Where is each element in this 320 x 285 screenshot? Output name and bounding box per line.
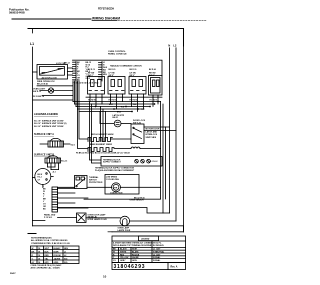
bundle descend wires: [90, 102, 106, 164]
switch drop wires: [90, 97, 158, 111]
svg-text:ROUGE: ROUGE: [54, 255, 62, 257]
svg-text:SIG: SIG: [64, 258, 68, 260]
wire N corner: [58, 208, 170, 214]
legend list title: [34, 112, 58, 116]
rail wire labels: [109, 104, 144, 114]
svg-text:WHITE: WHITE: [120, 252, 127, 254]
terminal block caption: [95, 167, 135, 172]
svg-text:PROTECTEUR: PROTECTEUR: [89, 182, 103, 184]
svg-text:59457: 59457: [10, 272, 16, 275]
surface unit switch labels: [88, 72, 156, 76]
svg-text:SUPPLY CONNECT: SUPPLY CONNECT: [103, 162, 121, 164]
oven door switch labels: [88, 213, 108, 221]
svg-text:H1 H2 N: H1 H2 N: [88, 99, 96, 101]
P1 pin labels: [77, 62, 81, 82]
switch wire labels row: [88, 68, 156, 71]
node L1: [30, 42, 34, 46]
svg-text:GRIS: GRIS: [132, 260, 137, 262]
oven sensor caption: [130, 199, 145, 201]
svg-text:H1 H2 N: H1 H2 N: [109, 99, 117, 101]
svg-text:SU-2,3: SU-2,3: [61, 160, 68, 162]
wire row w15: [42, 95, 73, 97]
wire color table text: [32, 247, 69, 264]
wire bottom rail 1: [33, 226, 184, 232]
legend list lines: [34, 120, 67, 128]
svg-text:BK R-10: BK R-10: [88, 69, 95, 71]
wire door sw row: [33, 218, 77, 221]
svg-text:N: N: [168, 43, 170, 47]
wire lower run 1: [84, 198, 161, 200]
svg-text:L2: L2: [173, 43, 177, 47]
oven lamp caption: [118, 227, 131, 232]
svg-text:BK-22 W-41: BK-22 W-41: [37, 83, 49, 86]
svg-text:SIGNAL: SIGNAL: [153, 259, 161, 262]
svg-text:BLACK: BLACK: [120, 248, 127, 251]
svg-text:BLANC: BLANC: [54, 247, 62, 250]
surface unit A element: [40, 138, 70, 147]
svg-text:W: W: [32, 248, 34, 250]
wire bottom rail 2: [108, 231, 112, 233]
wire broil left drop: [78, 109, 89, 149]
svg-text:COOLING FAN: COOLING FAN: [106, 178, 119, 181]
oven lamp: [120, 216, 130, 226]
wire door box to bus l2: [144, 130, 176, 132]
bake element label: [90, 143, 112, 146]
svg-text:BK R-40: BK R-40: [149, 68, 156, 71]
choke coil: [131, 147, 140, 149]
svg-text:WHT: WHT: [45, 248, 50, 250]
svg-text:P-12 W-3: P-12 W-3: [44, 217, 52, 219]
wires lock box to control: [68, 68, 73, 75]
wire bundle rail 1: [73, 101, 161, 103]
timer motor circle: [35, 169, 54, 188]
svg-text:5995524458: 5995524458: [9, 11, 25, 15]
svg-text:P4 BK-60 W-61 R-62 BU-63 GY-64: P4 BK-60 W-61 R-62 BU-63 GY-64 OR-65 BR-…: [76, 152, 131, 155]
comb drop wires: [73, 81, 79, 112]
svg-text:W-15 BK-16: W-15 BK-16: [33, 96, 45, 98]
svg-text:BK R-30: BK R-30: [130, 69, 137, 71]
svg-text:OVEN SENSOR: OVEN SENSOR: [130, 199, 145, 201]
connector strip J1: [52, 187, 58, 212]
wire bundle rail 2: [75, 103, 155, 105]
left bottom tick: [28, 233, 36, 235]
svg-text:L1: L1: [30, 42, 34, 46]
svg-text:SWITCHES: SWITCHES: [146, 137, 157, 139]
surface unit A title: [34, 133, 54, 136]
svg-text:NOTES/REMARQUES:: NOTES/REMARQUES:: [31, 236, 52, 239]
wire mid row: [58, 186, 112, 188]
wires connector to right: [58, 188, 89, 208]
connector pin labels: [43, 188, 47, 210]
svg-text:LEGEND: LEGEND: [141, 239, 150, 241]
convection motor label: [110, 187, 123, 194]
page number: [103, 275, 107, 279]
svg-text:GRY: GRY: [45, 262, 50, 264]
wiring diagram title: [92, 16, 120, 20]
svg-text:ALL WIRING 18 GA. COPPER UNLES: ALL WIRING 18 GA. COPPER UNLESS: [31, 239, 68, 242]
door switch label: [133, 120, 146, 124]
svg-text:N NEUTRAL: N NEUTRAL: [153, 251, 165, 254]
wire label column: [86, 62, 92, 80]
part number box: [112, 263, 186, 270]
broil element: [88, 138, 112, 142]
oven control connector P2 pin comb: [99, 62, 103, 82]
svg-text:10: 10: [103, 275, 107, 279]
svg-text:TABLEAU COMMANDE CUISSON: TABLEAU COMMANDE CUISSON: [110, 65, 142, 68]
svg-text:BLANC: BLANC: [132, 251, 139, 254]
svg-text:318046293: 318046293: [114, 264, 146, 270]
connector row labels: [73, 81, 99, 84]
svg-text:JAUNE: JAUNE: [132, 256, 139, 259]
svg-text:ROUGE: ROUGE: [132, 254, 140, 256]
svg-text:INTERLOCK: INTERLOCK: [146, 134, 158, 136]
wire top lamp row: [37, 85, 73, 87]
wire switch bottom rail: [86, 96, 162, 98]
svg-text:BK W: BK W: [38, 174, 43, 176]
wire L2 vertical: [175, 48, 177, 221]
svg-text:WIRING DIAGRAM: WIRING DIAGRAM: [92, 16, 120, 20]
svg-text:SW R-13: SW R-13: [33, 91, 42, 93]
P2 pin labels: [103, 62, 108, 76]
caption row P4: [76, 152, 131, 155]
svg-text:LEGEND/LEGENDE: LEGEND/LEGENDE: [34, 112, 58, 116]
wire through lamp switch: [40, 90, 73, 92]
thermal protector label: [89, 176, 103, 184]
label wires top near EOC: [56, 63, 71, 66]
panel french label: [110, 65, 142, 68]
enclosure text: [106, 177, 119, 181]
wire motor to connector: [42, 186, 44, 187]
svg-text:SU-2 6" SURFACE UNIT 1250W (2: SU-2 6" SURFACE UNIT 1250W (2): [34, 122, 67, 125]
svg-text:SW V-26: SW V-26: [133, 122, 142, 124]
wire L1 to motor: [33, 177, 35, 179]
wire lamp right: [86, 218, 176, 221]
svg-text:YELLOW: YELLOW: [120, 257, 128, 259]
svg-text:AVIS CONTRAIRE CAL. 18 AWG: AVIS CONTRAIRE CAL. 18 AWG: [31, 267, 61, 270]
switch terminal labels: [88, 99, 158, 101]
header rule under title: [92, 19, 117, 21]
wire row bk16: [33, 99, 73, 101]
legend table text: [113, 239, 164, 247]
wire gauge note rows: [31, 264, 63, 269]
svg-text:JAUNE: JAUNE: [54, 257, 61, 260]
wire to latch motor: [100, 112, 114, 124]
svg-text:SU-1 8" SURFACE UNIT 2100W: SU-1 8" SURFACE UNIT 2100W: [34, 120, 64, 123]
lock switch contacts: [42, 69, 62, 73]
svg-text:NOIR: NOIR: [54, 251, 60, 253]
svg-text:R 4-2: R 4-2: [38, 176, 42, 179]
svg-text:L1 N L2: L1 N L2: [151, 161, 158, 163]
surface unit switch S4: [149, 76, 163, 98]
svg-text:CONVECTION: CONVECTION: [110, 192, 123, 194]
svg-text:W: W: [113, 252, 115, 254]
broil element label: [91, 133, 114, 136]
thermal protector box: [75, 176, 88, 189]
svg-text:BK R-20: BK R-20: [109, 69, 116, 71]
wire lock box to L1: [33, 71, 38, 73]
svg-text:SIGNAL: SIGNAL: [153, 256, 161, 259]
oven control panel console labels: [108, 51, 127, 56]
surface unit B title: [34, 154, 54, 157]
timer motor text: [38, 174, 43, 182]
svg-text:BK-52 W-50: BK-52 W-50: [134, 197, 145, 199]
door lock switch assembly outer box: [37, 65, 68, 80]
svg-text:FEF375BCDH: FEF375BCDH: [98, 7, 114, 10]
door latch switch box: [131, 124, 144, 144]
svg-text:GRIS: GRIS: [54, 262, 60, 264]
wire bundle rail 4: [78, 108, 145, 110]
latch motor label: [113, 114, 125, 119]
svg-text:NOIR: NOIR: [132, 249, 137, 251]
svg-text:H1 H2 N: H1 H2 N: [130, 99, 138, 101]
svg-text:BK-31: BK-31: [113, 117, 120, 119]
svg-text:Rev. A: Rev. A: [171, 266, 178, 269]
svg-text:BAKE ELEMENT 2585W: BAKE ELEMENT 2585W: [90, 143, 112, 146]
interlock caption: [146, 129, 161, 139]
header rule left segment: [12, 18, 91, 20]
wire lower label 1: [134, 197, 145, 199]
model number text: [98, 7, 114, 10]
svg-text:SURFACE UNIT A: SURFACE UNIT A: [34, 133, 54, 136]
svg-text:WITH A RANGE TOP TERMINAL DE B: WITH A RANGE TOP TERMINAL DE BORNES DU D…: [113, 244, 164, 247]
publication number text: [9, 7, 30, 14]
wire right border vertical: [183, 46, 185, 232]
svg-text:SIG: SIG: [64, 262, 68, 264]
wire bundle rail 5: [79, 111, 132, 113]
top supply rule: [28, 29, 184, 47]
terminal block box: [101, 157, 162, 167]
control panel boundary: [73, 60, 163, 75]
svg-text:OVEN CONTROL: OVEN CONTROL: [108, 51, 126, 53]
wire bake to bus: [114, 148, 161, 150]
wire bundle rail 3: [76, 106, 150, 108]
switch lamp SW1: [48, 88, 53, 93]
connector strip bottom labels: [44, 214, 56, 219]
convection motor: [112, 183, 121, 192]
wire L1 vertical: [32, 47, 34, 226]
oven door switch box: [77, 213, 87, 223]
footer publication code: [10, 272, 16, 275]
svg-text:MTR: MTR: [113, 187, 118, 189]
svg-text:H1 H2 N: H1 H2 N: [150, 99, 158, 101]
surface unit B label: [61, 160, 68, 162]
svg-text:L1 120V: L1 120V: [153, 249, 161, 251]
svg-text:SU-3 6" SURFACE UNIT 1250W: SU-3 6" SURFACE UNIT 1250W: [34, 125, 64, 128]
notes text: [31, 236, 70, 244]
svg-text:NEU: NEU: [64, 248, 69, 250]
svg-text:INTER LAMPE FOUR: INTER LAMPE FOUR: [88, 218, 108, 221]
junction dots: [95, 101, 159, 113]
motor MDL door latch: [114, 120, 121, 127]
node N: [168, 43, 170, 47]
legend title box: [139, 236, 159, 241]
wire right risers: [161, 102, 166, 214]
convection fan enclosure: [105, 175, 139, 195]
node L2: [173, 43, 177, 47]
lock switch arm: [41, 68, 64, 74]
wire N vertical: [169, 48, 171, 213]
wire color table: [31, 246, 80, 264]
svg-text:RED: RED: [120, 254, 125, 256]
svg-text:RED: RED: [45, 255, 50, 257]
wire broil to door box: [110, 138, 131, 140]
timer motor label: [53, 171, 57, 174]
header rule dashed right segment: [118, 20, 207, 22]
svg-text:GREY: GREY: [120, 260, 126, 262]
svg-text:L2 120V: L2 120V: [153, 254, 161, 256]
svg-text:BLK: BLK: [45, 251, 50, 253]
svg-text:A2 DOOR LOCK: A2 DOOR LOCK: [42, 77, 58, 80]
svg-text:PLAQUE A BORNES DE RACCORDEMEN: PLAQUE A BORNES DE RACCORDEMENT: [95, 169, 135, 172]
door lock switch inner box: [40, 67, 65, 76]
surface unit switch S2: [108, 77, 125, 98]
legend table: [112, 236, 186, 263]
wire conv motor row: [121, 186, 161, 188]
lock box caption: [37, 77, 57, 86]
wire door box to bus n: [144, 126, 170, 128]
oven control connector P1 pin comb: [73, 62, 77, 82]
surface unit switch S3: [129, 77, 146, 98]
surface unit switch S1: [88, 77, 105, 98]
terminal block text: [103, 158, 158, 163]
bake element: [88, 148, 114, 152]
wire latch motor to door switch box: [121, 123, 131, 125]
surface unit B element: [45, 156, 61, 170]
part number: [114, 264, 178, 270]
svg-text:BROIL ELEMENT 3400W: BROIL ELEMENT 3400W: [91, 133, 114, 136]
svg-text:PANEL CONSOLE: PANEL CONSOLE: [108, 53, 127, 56]
surface unit A label: [71, 144, 76, 146]
svg-text:OTHERWISE NOTED. R BK W BU GY: OTHERWISE NOTED. R BK W BU GY GN.: [31, 243, 70, 245]
oven light label: [33, 88, 46, 98]
